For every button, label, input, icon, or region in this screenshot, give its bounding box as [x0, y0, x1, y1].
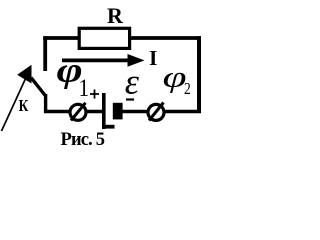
wire bottom left segment — [44, 110, 104, 113]
terminal circle right slash — [149, 103, 164, 121]
svg-text:I: I — [149, 46, 157, 70]
switch K pointer line — [2, 77, 27, 132]
battery plus sign — [90, 90, 99, 99]
resistor R box — [79, 28, 129, 48]
svg-text:R: R — [107, 3, 124, 28]
battery plate foot — [105, 125, 115, 129]
svg-text:2: 2 — [184, 80, 191, 99]
svg-text:ε: ε — [125, 62, 140, 102]
svg-text:1: 1 — [79, 74, 90, 102]
current arrow I head — [128, 54, 145, 67]
wire right — [197, 36, 201, 113]
terminal circle right — [148, 104, 164, 120]
svg-text:К: К — [19, 97, 29, 116]
current arrow I shaft — [62, 59, 129, 63]
switch K pointer arrowhead — [17, 65, 31, 84]
terminal circle left slash — [71, 103, 86, 121]
terminal circle left — [70, 104, 86, 120]
wire left upper — [43, 36, 47, 71]
battery short thick plate — [113, 103, 123, 120]
battery long plate — [102, 93, 106, 129]
wire top — [43, 36, 201, 40]
wire bottom right segment — [113, 110, 201, 113]
svg-text:Рис. 5: Рис. 5 — [61, 130, 106, 150]
svg-text:φ: φ — [163, 61, 187, 94]
battery minus sign — [126, 98, 134, 100]
switch K lever — [31, 78, 46, 97]
wire left lower — [44, 94, 47, 113]
